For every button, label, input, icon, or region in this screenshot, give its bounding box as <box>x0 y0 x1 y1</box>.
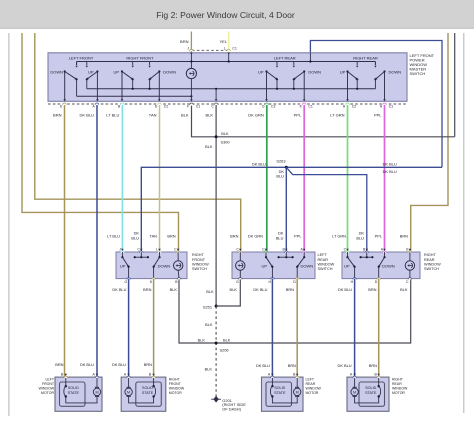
RR switch top terminals <box>346 251 350 253</box>
ground symbol G201 <box>213 396 218 403</box>
svg-text:G: G <box>124 280 127 284</box>
LR switch circuit breaker <box>239 252 241 261</box>
switch LR DOWN in master <box>303 70 305 72</box>
svg-text:LT BLU: LT BLU <box>107 234 120 239</box>
svg-text:BRN: BRN <box>144 362 152 367</box>
svg-text:C1: C1 <box>196 105 201 109</box>
solid state module <box>136 382 162 406</box>
svg-text:UP: UP <box>344 264 350 269</box>
svg-text:UP: UP <box>88 69 94 74</box>
svg-text:C1: C1 <box>308 105 313 109</box>
motor M <box>128 377 130 388</box>
left front power window master switch U1 <box>48 53 407 102</box>
svg-text:TAN: TAN <box>150 234 158 239</box>
LR switch DOWN blade <box>303 252 305 257</box>
svg-text:BLU: BLU <box>276 235 284 240</box>
svg-text:DK BLU: DK BLU <box>338 287 352 292</box>
motor box outline <box>55 377 102 411</box>
svg-text:SOLID: SOLID <box>365 386 376 390</box>
svg-text:G: G <box>262 105 265 109</box>
wire YEL drop to bus <box>228 53 230 62</box>
svg-text:SOLID: SOLID <box>274 386 285 390</box>
svg-text:OF DASH): OF DASH) <box>222 407 241 412</box>
wire DK BLU lower rail from S263 to right rear switch B <box>286 167 367 252</box>
svg-text:L: L <box>224 47 226 51</box>
svg-text:LEFT FRONT: LEFT FRONT <box>69 55 94 60</box>
svg-text:MOTOR: MOTOR <box>41 391 54 395</box>
master bottom terminal B LT BLU <box>121 103 125 105</box>
svg-text:UP: UP <box>258 69 264 74</box>
svg-text:J: J <box>187 47 189 51</box>
svg-text:RIGHT: RIGHT <box>392 378 404 382</box>
RR switch UP blade <box>347 252 349 257</box>
svg-text:UP: UP <box>262 264 268 269</box>
svg-text:SOLID: SOLID <box>142 386 153 390</box>
switch RF DOWN in master <box>158 70 160 72</box>
svg-text:M: M <box>353 390 356 394</box>
svg-text:DK BLU: DK BLU <box>383 161 397 166</box>
svg-text:YEL: YEL <box>219 39 227 44</box>
svg-text:BLK: BLK <box>400 287 408 292</box>
svg-text:LEFT REAR: LEFT REAR <box>274 55 296 60</box>
svg-text:G: G <box>406 248 409 252</box>
svg-text:DK BLU: DK BLU <box>253 287 267 292</box>
svg-text:BRN: BRN <box>368 287 376 292</box>
splice S251 <box>215 305 218 308</box>
svg-text:BRN: BRN <box>167 234 175 239</box>
master connector dashed edge top (C1) <box>192 49 229 51</box>
svg-text:DOWN: DOWN <box>163 69 176 74</box>
wire DK BLU from master A to left front motor A <box>96 105 98 377</box>
master bottom terminal E BRN <box>63 103 67 105</box>
master bottom terminal K PPL <box>302 103 306 105</box>
solid state module <box>266 382 292 406</box>
wire BRN RF switch K to right front motor B <box>153 279 155 378</box>
splice S300 <box>215 135 218 138</box>
svg-text:DOWN: DOWN <box>301 264 314 269</box>
svg-text:BLK: BLK <box>205 366 213 371</box>
svg-text:DOWN: DOWN <box>50 69 63 74</box>
svg-text:PPL: PPL <box>294 234 302 239</box>
svg-text:DOWN: DOWN <box>308 69 321 74</box>
svg-text:BLK: BLK <box>181 112 189 117</box>
svg-text:REAR: REAR <box>392 382 402 386</box>
svg-text:S251: S251 <box>203 304 212 309</box>
riser stub x=310.4 to bus <box>309 53 311 62</box>
motor terminals <box>127 376 131 378</box>
ground rail BLK <box>179 279 411 343</box>
right rear window switch U4 <box>342 252 420 279</box>
svg-text:C1: C1 <box>232 47 237 51</box>
fixed contact at x=86.8 <box>86 62 88 66</box>
LR switch contact bar <box>279 256 293 258</box>
svg-text:BLK: BLK <box>205 322 213 327</box>
svg-text:REAR: REAR <box>306 382 316 386</box>
circuit breaker (thermal) in motor <box>378 377 380 386</box>
switch RF UP in master <box>121 70 123 72</box>
master bottom terminal H LT GRN <box>346 103 350 105</box>
svg-text:BRN: BRN <box>286 287 294 292</box>
svg-text:BRN: BRN <box>55 362 63 367</box>
svg-text:F: F <box>187 105 189 109</box>
wire page-left gray <box>8 33 10 416</box>
motor box outline <box>262 377 304 411</box>
svg-text:C1: C1 <box>389 105 394 109</box>
terminal J top of master with BRN feed <box>190 32 192 53</box>
motor terminals <box>353 376 357 378</box>
svg-text:STATE: STATE <box>274 391 286 395</box>
svg-text:BLU: BLU <box>356 235 364 240</box>
wire page-right BRN to right rear switch G <box>411 33 448 252</box>
RR switch DOWN blade <box>384 252 386 257</box>
switch LR UP in master <box>265 70 267 72</box>
fixed contact at x=277 <box>276 62 278 66</box>
wire BLK from master C through S300 down <box>215 105 217 306</box>
master bottom terminal D TAN <box>158 103 162 105</box>
svg-text:DK BLU: DK BLU <box>80 362 94 367</box>
rail from LF DOWN tip to CB vertical y=96.3 <box>77 95 192 97</box>
solid state module <box>359 382 385 406</box>
svg-text:STATE: STATE <box>68 391 80 395</box>
wire BLK from master F to S300 <box>192 106 217 137</box>
wire BLK dashed to ground G201 <box>215 306 217 397</box>
svg-text:G: G <box>236 280 239 284</box>
svg-text:PPL: PPL <box>374 112 382 117</box>
svg-text:BLK: BLK <box>221 131 229 136</box>
wire DK BLU RR switch H to right rear motor A <box>354 279 356 378</box>
svg-text:BLK: BLK <box>198 337 206 342</box>
svg-text:S263: S263 <box>276 158 285 163</box>
wire DK BLU LR switch H to left rear motor A <box>271 279 273 378</box>
master bottom terminal F BLK <box>190 103 194 105</box>
master bottom terminal H PPL <box>383 103 387 105</box>
svg-text:WINDOW: WINDOW <box>424 262 441 266</box>
title bar <box>0 0 474 28</box>
motor terminals <box>295 376 299 378</box>
wire LT GRN from master H C2 to right rear switch C <box>347 105 349 252</box>
wire BRN LR switch D to left rear motor B <box>296 279 298 378</box>
wire BRN RR switch D to right rear motor B <box>378 279 380 378</box>
switch RR DOWN in master <box>383 70 385 72</box>
svg-text:DOWN: DOWN <box>389 69 402 74</box>
svg-text:DK BLU: DK BLU <box>338 363 352 368</box>
svg-text:BRN: BRN <box>53 112 62 117</box>
svg-text:WINDOW: WINDOW <box>169 387 185 391</box>
svg-text:J: J <box>119 248 121 252</box>
wire page-left BRN outer to right front switch C <box>22 33 179 252</box>
wire LT BLU from master B to right front switch J <box>121 105 123 252</box>
svg-text:BLK: BLK <box>170 287 178 292</box>
svg-text:BLK: BLK <box>206 289 214 294</box>
motor box outline <box>347 377 389 411</box>
svg-text:RIGHT: RIGHT <box>192 253 204 257</box>
wire DK BLU RF switch G to right front motor A <box>128 279 130 378</box>
svg-text:WINDOW: WINDOW <box>392 387 408 391</box>
svg-text:SWITCH: SWITCH <box>318 267 333 271</box>
solid state module <box>60 382 86 406</box>
svg-text:UP: UP <box>113 69 119 74</box>
RF switch DOWN blade <box>159 252 161 257</box>
splice S206 <box>215 342 218 345</box>
motor terminals <box>95 376 99 378</box>
svg-text:BLU: BLU <box>131 235 139 240</box>
svg-text:DK GRN: DK GRN <box>248 234 263 239</box>
svg-text:M: M <box>127 390 130 394</box>
svg-text:BRN: BRN <box>400 234 408 239</box>
power bus inside master switch <box>77 61 376 63</box>
switch RR UP in master <box>346 70 348 72</box>
master bottom terminal G DK GRN <box>265 103 269 105</box>
svg-text:MOTOR: MOTOR <box>306 391 319 395</box>
svg-text:PPL: PPL <box>294 112 302 117</box>
RF switch top terminals <box>121 251 125 253</box>
svg-text:LT GRN: LT GRN <box>330 112 344 117</box>
wire DK BLU riser from master switch to right margin <box>310 41 442 168</box>
svg-text:LEFT: LEFT <box>318 253 328 257</box>
svg-text:DK BLU: DK BLU <box>80 112 95 117</box>
svg-text:RIGHT: RIGHT <box>424 253 436 257</box>
svg-text:DK BLU: DK BLU <box>256 363 270 368</box>
svg-text:BLK: BLK <box>223 337 231 342</box>
svg-text:RIGHT FRONT: RIGHT FRONT <box>126 55 154 60</box>
svg-text:RIGHT REAR: RIGHT REAR <box>353 55 378 60</box>
svg-text:BLK: BLK <box>205 144 213 149</box>
svg-text:LT BLU: LT BLU <box>106 112 119 117</box>
svg-text:S300: S300 <box>221 140 231 145</box>
svg-text:S206: S206 <box>220 348 229 353</box>
svg-text:FRONT: FRONT <box>169 382 182 386</box>
RR switch contact bar <box>361 256 373 258</box>
svg-text:C2: C2 <box>352 105 357 109</box>
circuit breaker (thermal) in motor <box>65 377 67 386</box>
RF switch circuit breaker <box>177 252 179 261</box>
wire BRN from master E to left front motor B <box>64 105 66 377</box>
svg-text:DK GRN: DK GRN <box>248 112 264 117</box>
fixed contact at x=293.8 <box>293 62 295 66</box>
svg-text:MOTOR: MOTOR <box>169 391 182 395</box>
wire DK GRN from master G to left rear switch C <box>266 105 268 252</box>
svg-text:FRONT: FRONT <box>42 382 55 386</box>
master bottom terminal A DK BLU <box>95 103 99 105</box>
motor M <box>96 377 98 388</box>
svg-text:BRN: BRN <box>143 287 151 292</box>
svg-text:TAN: TAN <box>149 112 157 117</box>
fixed contact at x=375.4 <box>374 62 376 66</box>
svg-text:STATE: STATE <box>142 391 154 395</box>
svg-text:MOTOR: MOTOR <box>392 391 405 395</box>
fixed contact at x=132.7 <box>132 62 134 66</box>
svg-text:SWITCH: SWITCH <box>424 267 439 271</box>
circuit breaker (thermal) in motor <box>153 377 155 386</box>
RF switch contact bar <box>135 256 148 258</box>
motor M <box>296 377 298 388</box>
svg-text:DK BLU: DK BLU <box>112 362 126 367</box>
circuit breaker (thermal) in motor <box>271 377 273 386</box>
master bottom terminal C BLK <box>214 103 218 105</box>
fixed contact at x=76.6 <box>76 62 78 66</box>
RF switch bottom terminals <box>127 278 131 280</box>
svg-text:DK BLU: DK BLU <box>383 169 397 174</box>
motor box outline <box>121 377 166 411</box>
master connector dashed edge bottom <box>48 103 407 105</box>
svg-text:DK BLU: DK BLU <box>112 287 126 292</box>
left rear window switch U3 <box>232 252 315 279</box>
motor M <box>354 377 356 388</box>
right front window switch U2 <box>116 252 187 279</box>
svg-text:BRN: BRN <box>180 39 189 44</box>
svg-text:M: M <box>95 390 98 394</box>
svg-text:BRN: BRN <box>369 363 377 368</box>
wire BLK S300 rail to right margin <box>216 136 455 138</box>
LR switch bottom terminals <box>239 278 243 280</box>
wire TAN from master D to right front switch L <box>159 105 161 252</box>
svg-text:BLU: BLU <box>276 174 284 179</box>
svg-text:SOLID: SOLID <box>68 386 79 390</box>
RR switch circuit breaker <box>409 252 411 261</box>
svg-text:Fig 2: Power Window Circuit, 4: Fig 2: Power Window Circuit, 4 Door <box>156 10 295 20</box>
svg-text:BRN: BRN <box>288 363 296 368</box>
fixed contact at x=149.6 <box>149 62 151 66</box>
svg-text:BRN: BRN <box>230 234 238 239</box>
svg-text:PPL: PPL <box>375 234 383 239</box>
fixed contact at x=357.2 <box>356 62 358 66</box>
wire page-right gray <box>463 33 465 413</box>
svg-text:WINDOW: WINDOW <box>39 387 55 391</box>
svg-text:WINDOW: WINDOW <box>318 262 335 266</box>
svg-text:FRONT: FRONT <box>192 258 206 262</box>
svg-text:LEFT: LEFT <box>306 378 315 382</box>
wire PPL from master K to left rear switch A <box>303 105 305 252</box>
svg-text:DK BLU: DK BLU <box>252 161 266 166</box>
svg-text:BLK: BLK <box>230 287 238 292</box>
svg-text:BLK: BLK <box>206 112 214 117</box>
rail to ground bus y=88.8 in master <box>87 88 376 90</box>
switch LF DOWN in master <box>64 70 66 72</box>
wire PPL from master H C1 to right rear switch A <box>384 105 386 252</box>
svg-text:SWITCH: SWITCH <box>410 71 426 76</box>
wire DK BLU drop S263 to left rear switch B <box>285 167 287 252</box>
circuit breaker CB1 in master <box>190 53 192 69</box>
svg-text:UP: UP <box>340 69 346 74</box>
RR switch bottom terminals <box>353 278 357 280</box>
riser terminal C to ground rail in master <box>215 89 217 100</box>
svg-text:STATE: STATE <box>365 391 377 395</box>
svg-text:DOWN: DOWN <box>158 264 171 269</box>
LR switch top terminals <box>239 251 243 253</box>
wire page-left BRN inner to left rear switch C <box>35 33 241 252</box>
svg-text:DOWN: DOWN <box>382 264 395 269</box>
svg-text:RIGHT: RIGHT <box>169 378 181 382</box>
LR switch UP blade <box>265 252 267 257</box>
splice S263 <box>285 166 288 169</box>
svg-text:LT GRN: LT GRN <box>332 234 346 239</box>
svg-text:REAR: REAR <box>318 258 329 262</box>
terminal L C1 top of master with YEL feed <box>228 32 230 53</box>
svg-text:REAR: REAR <box>424 258 435 262</box>
RF switch UP blade <box>121 252 123 257</box>
svg-text:SWITCH: SWITCH <box>192 267 207 271</box>
svg-text:M: M <box>296 390 299 394</box>
svg-text:LEFT: LEFT <box>45 378 54 382</box>
wire page-right BLK to S300 rail <box>454 33 456 137</box>
svg-text:WINDOW: WINDOW <box>306 387 322 391</box>
wire DK BLU upper rail through S263 <box>141 167 442 252</box>
wire BLK jog from left rear switch G to S251 <box>216 279 240 306</box>
svg-text:L: L <box>156 248 158 252</box>
svg-text:WINDOW: WINDOW <box>192 262 209 266</box>
svg-text:UP: UP <box>120 264 126 269</box>
svg-text:C2: C2 <box>271 105 276 109</box>
svg-text:C2: C2 <box>164 105 169 109</box>
switch LF UP in master <box>96 70 98 72</box>
